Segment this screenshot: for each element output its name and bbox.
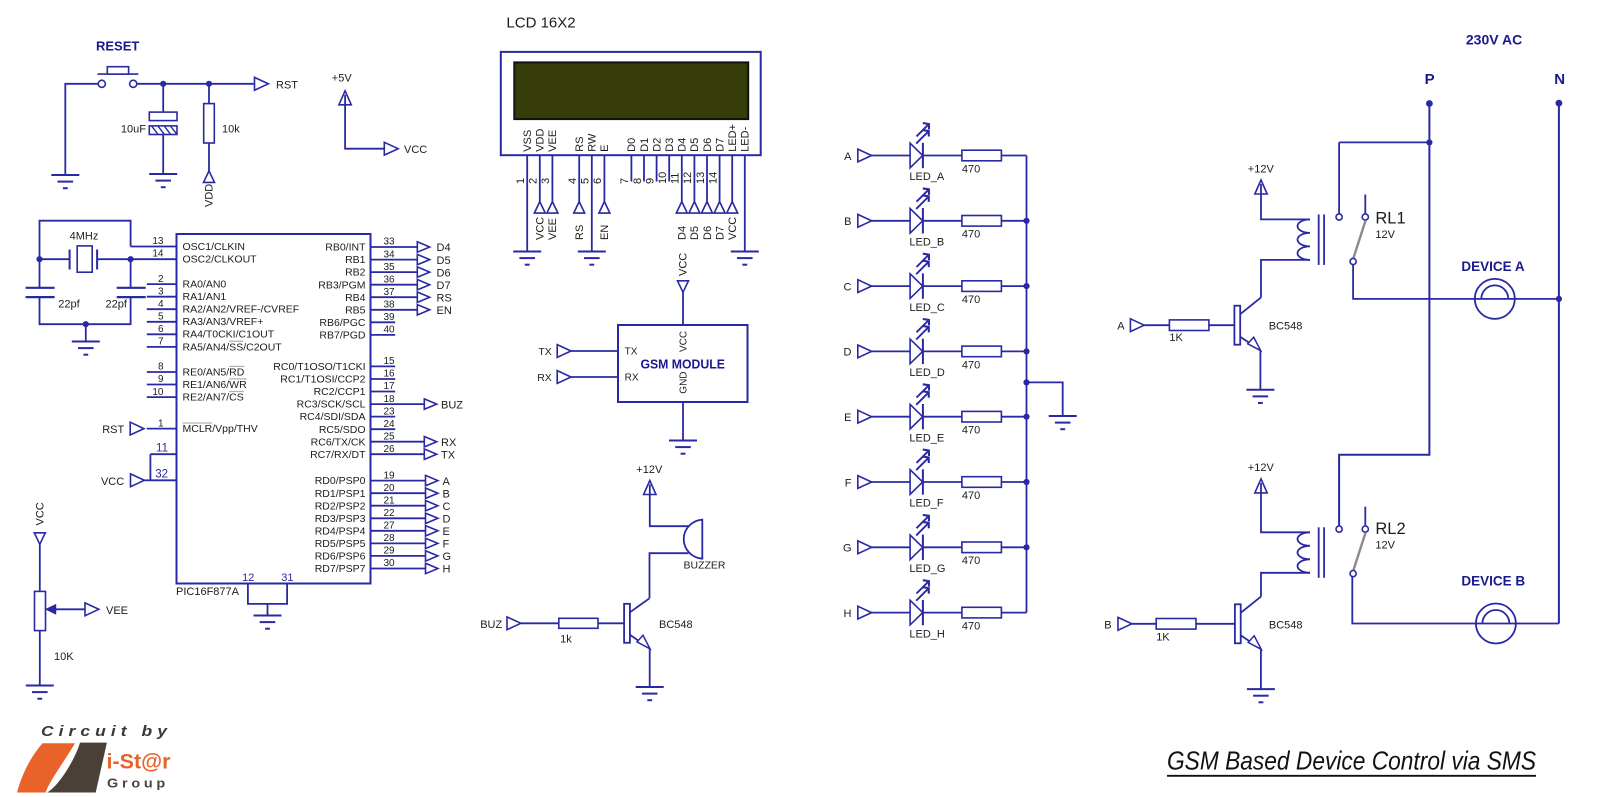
svg-text:H: H bbox=[443, 564, 451, 576]
wire R4 to Q3 base bbox=[1196, 623, 1235, 625]
wire +5V to VCC connector bbox=[345, 105, 384, 149]
label 12V (RL1) bbox=[1375, 229, 1395, 241]
label D4 rotated (LCD D4) bbox=[677, 226, 689, 240]
connector BUZ (pin 18) bbox=[424, 399, 463, 411]
IC pin 19 number bbox=[384, 470, 396, 481]
IC pin 39 number bbox=[384, 312, 396, 323]
IC pin 23 label RC4/SDI/SDA bbox=[300, 411, 366, 423]
svg-text:21: 21 bbox=[384, 495, 396, 506]
LCD pin number 14 bbox=[707, 172, 719, 184]
LCD pin D7 wire bbox=[719, 155, 721, 201]
IC pin 5 number bbox=[158, 312, 164, 323]
IC pin 35 stub bbox=[371, 271, 418, 273]
LCD pin D5 wire bbox=[693, 155, 695, 201]
relay RL2 coil bbox=[1298, 532, 1311, 573]
pushbutton SW1 actuator bar bbox=[98, 67, 139, 74]
svg-text:LED_D: LED_D bbox=[909, 367, 945, 379]
LCD pin number 11 bbox=[670, 173, 682, 184]
junction dot crystal right bbox=[128, 256, 134, 262]
wire resistor to bus (row A) bbox=[1001, 155, 1026, 157]
svg-text:BUZ: BUZ bbox=[441, 399, 463, 411]
svg-text:RC5/SDO: RC5/SDO bbox=[319, 424, 366, 436]
LED LED_A bbox=[910, 123, 929, 168]
wire VCC bracket pins 11-32 bbox=[149, 454, 151, 480]
svg-text:4: 4 bbox=[158, 299, 164, 310]
svg-text:10uF: 10uF bbox=[121, 124, 146, 136]
svg-text:VCC: VCC bbox=[34, 502, 46, 525]
label BUZZER bbox=[684, 560, 726, 572]
svg-text:9: 9 bbox=[158, 374, 164, 385]
svg-text:D1: D1 bbox=[639, 138, 651, 152]
connector D input (LED row) bbox=[844, 345, 872, 359]
svg-text:RA1/AN1: RA1/AN1 bbox=[183, 291, 227, 303]
svg-text:35: 35 bbox=[384, 262, 396, 273]
IC pin 15 stub bbox=[371, 365, 396, 367]
label LCD 16X2 bbox=[506, 15, 575, 32]
svg-text:34: 34 bbox=[384, 249, 396, 260]
transistor Q3 BC548 (RL2) emitter bbox=[1241, 635, 1262, 649]
label GSM MODULE bbox=[640, 357, 725, 372]
IC pin 2 stub bbox=[147, 283, 177, 285]
IC pin 18 label RC3/SCK/SCL bbox=[297, 399, 366, 411]
IC pin 23 number bbox=[384, 406, 396, 417]
svg-text:RE0/AN5/RD: RE0/AN5/RD bbox=[183, 366, 245, 378]
svg-text:RS: RS bbox=[437, 292, 452, 304]
LCD pin number 5 bbox=[580, 178, 592, 184]
IC pin 3 stub bbox=[147, 296, 177, 298]
svg-text:29: 29 bbox=[384, 546, 396, 557]
svg-text:RESET: RESET bbox=[96, 39, 139, 54]
connector H input (LED row) bbox=[844, 606, 872, 620]
wire Q2 emitter to ground bbox=[1259, 350, 1261, 389]
IC pin 25 number bbox=[384, 431, 396, 442]
wire P rail bbox=[1339, 104, 1429, 526]
connector VEE up (LCD VEE) bbox=[547, 202, 558, 214]
IC pin 40 label RB7/PGD bbox=[319, 330, 366, 342]
svg-text:470: 470 bbox=[962, 490, 980, 502]
svg-text:10k: 10k bbox=[222, 124, 240, 136]
power arrow +5V bbox=[339, 91, 351, 105]
label LED_C bbox=[909, 302, 945, 314]
svg-text:GND: GND bbox=[678, 371, 689, 393]
LCD pin D4 wire bbox=[681, 155, 683, 201]
LCD pin label D6 bbox=[702, 138, 714, 152]
lamp DEVICE A bbox=[1475, 279, 1515, 319]
connector B input (RL2) bbox=[1104, 617, 1132, 631]
IC pin 29 number bbox=[384, 546, 396, 557]
svg-text:PIC16F877A: PIC16F877A bbox=[176, 586, 240, 598]
svg-text:470: 470 bbox=[962, 555, 980, 567]
logo dark swoosh bbox=[47, 743, 107, 793]
ground (Q3) bbox=[1247, 689, 1275, 702]
wire F to LED_F bbox=[871, 481, 910, 483]
svg-text:VCC: VCC bbox=[678, 253, 690, 276]
IC pin 36 label RB3/PGM bbox=[318, 279, 365, 291]
node N dot bbox=[1556, 100, 1563, 107]
svg-text:33: 33 bbox=[384, 237, 396, 248]
svg-text:1K: 1K bbox=[1156, 631, 1170, 643]
svg-text:27: 27 bbox=[384, 521, 396, 532]
svg-text:32: 32 bbox=[155, 469, 168, 481]
connector F (pin 28) bbox=[426, 538, 450, 550]
logo orange swoosh bbox=[17, 743, 75, 792]
svg-text:1k: 1k bbox=[560, 634, 572, 646]
wire LED_F to resistor bbox=[923, 481, 962, 483]
junction dot bottom rail bbox=[83, 321, 89, 327]
resistor R1 10k bbox=[204, 104, 215, 143]
wire G to LED_G bbox=[871, 546, 910, 548]
wire A to R3 bbox=[1144, 324, 1170, 326]
IC pin 8 stub bbox=[147, 371, 177, 373]
wire +12V to RL2 coil bbox=[1261, 493, 1310, 532]
relay RL1 contact left bbox=[1336, 214, 1342, 220]
LCD pin number 6 bbox=[592, 178, 604, 184]
IC pin 37 number bbox=[384, 287, 396, 298]
resistor 470 (row A) bbox=[962, 150, 1002, 161]
svg-text:RL2: RL2 bbox=[1375, 520, 1405, 538]
IC pin 38 label RB5 bbox=[345, 304, 366, 316]
LCD pin D6 wire bbox=[706, 155, 708, 201]
svg-text:BUZZER: BUZZER bbox=[684, 560, 726, 572]
svg-text:470: 470 bbox=[962, 621, 980, 633]
svg-text:8: 8 bbox=[158, 362, 164, 373]
LED LED_G bbox=[910, 515, 929, 560]
svg-text:230V AC: 230V AC bbox=[1466, 32, 1522, 48]
IC pin 39 label RB6/PGC bbox=[319, 317, 366, 329]
svg-text:LED_E: LED_E bbox=[909, 432, 944, 444]
IC pin 17 number bbox=[384, 381, 396, 392]
label LED_D bbox=[909, 367, 945, 379]
wire bus to ground bbox=[1027, 382, 1063, 415]
label +5V bbox=[332, 73, 353, 85]
label 10K (pot) bbox=[54, 651, 74, 663]
resistor 470 (row D) bbox=[962, 346, 1002, 357]
connector EN up (LCD E) bbox=[599, 202, 610, 214]
svg-text:D6: D6 bbox=[702, 138, 714, 152]
IC pin 32 stub + number bbox=[150, 469, 176, 481]
svg-text:28: 28 bbox=[384, 533, 396, 544]
IC pin 28 stub bbox=[371, 542, 426, 544]
wire LED_C to resistor bbox=[923, 285, 962, 287]
svg-text:23: 23 bbox=[384, 406, 396, 417]
connector RS up (LCD RS) bbox=[574, 202, 585, 214]
IC pin 19 label RD0/PSP0 bbox=[315, 475, 366, 487]
IC pin 33 label RB0/INT bbox=[325, 242, 366, 254]
wire right 22pf top bbox=[130, 259, 132, 287]
IC pin 35 number bbox=[384, 262, 396, 273]
connector D5 up (LCD D5) bbox=[689, 202, 700, 214]
svg-text:22pf: 22pf bbox=[58, 299, 80, 311]
svg-text:RB7/PGD: RB7/PGD bbox=[319, 330, 366, 342]
svg-text:EN: EN bbox=[437, 305, 452, 317]
label 4MHz bbox=[70, 231, 99, 243]
svg-text:RB6/PGC: RB6/PGC bbox=[319, 317, 366, 329]
LED LED_B bbox=[910, 188, 929, 233]
ground (reset switch) bbox=[51, 175, 79, 188]
svg-text:E: E bbox=[844, 412, 851, 424]
LCD pin D1 stub wire bbox=[643, 155, 645, 181]
IC pin 26 stub bbox=[371, 453, 425, 455]
svg-text:RD3/PSP3: RD3/PSP3 bbox=[315, 513, 366, 525]
LCD screen bbox=[514, 62, 748, 119]
resistor 470 (row G) bbox=[962, 542, 1002, 553]
label VDD rotated bbox=[203, 184, 215, 207]
svg-text:LED_G: LED_G bbox=[909, 563, 945, 575]
ground (C1) bbox=[149, 174, 177, 187]
svg-text:TX: TX bbox=[625, 347, 638, 358]
IC pin 27 number bbox=[384, 521, 396, 532]
wire resistor to bus (row D) bbox=[1001, 350, 1026, 352]
svg-text:LED_F: LED_F bbox=[909, 498, 944, 510]
svg-text:VEE: VEE bbox=[547, 130, 559, 152]
connector D7 up (LCD D7) bbox=[714, 202, 725, 214]
IC pin 27 label RD4/PSP4 bbox=[315, 525, 366, 537]
IC pin 25 label RC6/TX/CK bbox=[311, 436, 366, 448]
relay RL1 core bbox=[1319, 214, 1324, 265]
wire resistor to bus (row G) bbox=[1001, 546, 1026, 548]
transistor Q3 BC548 (RL2) base bar bbox=[1235, 604, 1241, 643]
wire TX to GSM bbox=[571, 350, 618, 352]
wire D to LED_D bbox=[871, 350, 910, 352]
label 22pf (C3) bbox=[106, 299, 128, 311]
IC pin 20 stub bbox=[371, 492, 426, 494]
label +12V (RL2) bbox=[1248, 462, 1275, 474]
svg-text:25: 25 bbox=[384, 431, 396, 442]
svg-text:13: 13 bbox=[152, 236, 164, 247]
IC pin 22 number bbox=[384, 508, 396, 519]
svg-text:D5: D5 bbox=[689, 138, 701, 152]
LCD pin number 4 bbox=[567, 178, 579, 184]
junction dot bus row C bbox=[1023, 283, 1029, 289]
label VCC rotated (LCD LED+) bbox=[727, 217, 739, 240]
svg-text:G: G bbox=[843, 543, 852, 555]
svg-text:RC7/RX/DT: RC7/RX/DT bbox=[310, 449, 366, 461]
IC pin 3 label RA1/AN1 bbox=[183, 291, 227, 303]
label 470 (row B) bbox=[962, 229, 980, 241]
svg-text:17: 17 bbox=[384, 381, 396, 392]
resistor R3 1K bbox=[1169, 320, 1209, 331]
IC pin 34 stub bbox=[371, 259, 418, 261]
resistor 470 (row F) bbox=[962, 477, 1002, 488]
label BC548 (Q1) bbox=[659, 619, 693, 631]
svg-text:18: 18 bbox=[384, 394, 396, 405]
LCD pin label D0 bbox=[626, 138, 638, 152]
svg-text:VCC: VCC bbox=[678, 331, 689, 352]
IC pin 34 number bbox=[384, 249, 396, 260]
relay RL1 contact common bbox=[1350, 258, 1356, 264]
svg-text:VEE: VEE bbox=[547, 218, 559, 240]
wire LED_A to resistor bbox=[923, 155, 962, 157]
relay RL1 contact stub bbox=[1364, 195, 1366, 214]
svg-text:D5: D5 bbox=[689, 226, 701, 240]
svg-text:3: 3 bbox=[158, 286, 164, 297]
label 10k bbox=[222, 124, 240, 136]
IC pin 34 label RB1 bbox=[345, 254, 366, 266]
IC pin 28 number bbox=[384, 533, 396, 544]
logo text Group bbox=[107, 776, 169, 791]
wire E to LED_E bbox=[871, 416, 910, 418]
label 12V (RL2) bbox=[1375, 540, 1395, 552]
svg-text:22pf: 22pf bbox=[106, 299, 128, 311]
svg-text:DEVICE A: DEVICE A bbox=[1461, 259, 1525, 274]
svg-text:1: 1 bbox=[158, 418, 164, 429]
relay RL2 contact stub bbox=[1364, 507, 1366, 526]
label 470 (row G) bbox=[962, 555, 980, 567]
IC pin 24 stub bbox=[371, 428, 396, 430]
ground (oscillator) bbox=[72, 342, 100, 355]
transistor Q1 BC548 (buzzer) base bar bbox=[624, 604, 630, 643]
svg-text:VCC: VCC bbox=[535, 217, 547, 240]
IC pin 24 number bbox=[384, 419, 396, 430]
svg-text:RC6/TX/CK: RC6/TX/CK bbox=[311, 436, 366, 448]
IC pin 16 label RC1/T1OSI/CCP2 bbox=[280, 374, 365, 386]
svg-text:A: A bbox=[1117, 321, 1125, 333]
ground (Q2) bbox=[1246, 390, 1274, 403]
IC pin 7 stub bbox=[147, 346, 177, 348]
svg-text:D6: D6 bbox=[702, 226, 714, 240]
IC pin 16 stub bbox=[371, 378, 396, 380]
label LED_A bbox=[909, 171, 945, 183]
svg-text:LED_B: LED_B bbox=[909, 237, 944, 249]
wire R3 to Q2 base bbox=[1209, 324, 1235, 326]
svg-text:GSM MODULE: GSM MODULE bbox=[640, 357, 725, 372]
svg-text:14: 14 bbox=[707, 172, 719, 184]
IC pin 26 label RC7/RX/DT bbox=[310, 449, 366, 461]
connector B (pin 20) bbox=[426, 488, 450, 500]
pushbutton SW1 left contact bbox=[98, 80, 105, 87]
IC pin 1 label MCLR/Vpp/THV bbox=[183, 423, 258, 435]
wire GSM GND to ground bbox=[682, 402, 684, 440]
wire resistor to bus (row C) bbox=[1001, 285, 1026, 287]
connector F input (LED row) bbox=[845, 476, 872, 490]
svg-text:Circuit by: Circuit by bbox=[41, 724, 172, 740]
label LED_F bbox=[909, 498, 944, 510]
svg-text:470: 470 bbox=[962, 294, 980, 306]
LCD pin LED- wire to ground bbox=[744, 155, 746, 251]
wire RL1 contact to P rail bbox=[1339, 142, 1429, 214]
IC pin 40 stub bbox=[371, 334, 396, 336]
svg-text:C: C bbox=[443, 501, 451, 513]
svg-text:GSM Based Device Control via S: GSM Based Device Control via SMS bbox=[1167, 746, 1537, 776]
svg-text:RX: RX bbox=[537, 372, 552, 384]
IC pin 4 number bbox=[158, 299, 164, 310]
svg-text:470: 470 bbox=[962, 229, 980, 241]
wire left 22pf top bbox=[39, 259, 41, 287]
IC pin 21 label RD2/PSP2 bbox=[315, 500, 366, 512]
wire DEVICE B to N rail bbox=[1516, 623, 1559, 625]
wire C1 to ground bbox=[162, 135, 164, 175]
LCD pin D2 stub wire bbox=[656, 155, 658, 181]
wire crystal left bbox=[40, 258, 70, 260]
svg-text:LED_H: LED_H bbox=[909, 628, 945, 640]
LCD pin LED+ wire bbox=[731, 155, 733, 201]
IC pin 22 stub bbox=[371, 517, 426, 519]
svg-text:A: A bbox=[844, 151, 852, 163]
LCD pin number 9 bbox=[644, 178, 656, 184]
wire resistor to bus (row H) bbox=[1001, 612, 1026, 614]
logo text i-St@r bbox=[107, 750, 172, 774]
IC pin 39 stub bbox=[371, 321, 396, 323]
svg-text:15: 15 bbox=[384, 356, 396, 367]
transistor Q2 BC548 (RL1) emitter bbox=[1240, 337, 1261, 351]
svg-text:D7: D7 bbox=[437, 280, 451, 292]
svg-text:TX: TX bbox=[441, 449, 456, 461]
svg-text:VDD: VDD bbox=[535, 129, 547, 152]
label 10uF bbox=[121, 124, 146, 136]
svg-text:TX: TX bbox=[538, 346, 551, 358]
svg-text:BC548: BC548 bbox=[659, 619, 693, 631]
label D5 rotated (LCD D5) bbox=[689, 226, 701, 240]
svg-text:RB4: RB4 bbox=[345, 292, 366, 304]
connector VCC into pin 32 bbox=[101, 474, 150, 488]
svg-text:F: F bbox=[443, 539, 450, 551]
IC pin 29 stub bbox=[371, 555, 426, 557]
label DEVICE A bbox=[1461, 259, 1525, 274]
wire LED_D to resistor bbox=[923, 350, 962, 352]
wire +12V to buzzer bbox=[650, 495, 689, 527]
connector RX input bbox=[537, 371, 571, 384]
svg-text:36: 36 bbox=[384, 274, 396, 285]
ground (LED bus) bbox=[1049, 416, 1077, 429]
connector D6 up (LCD D6) bbox=[702, 202, 713, 214]
resistor 470 (row B) bbox=[962, 216, 1002, 227]
svg-text:OSC1/CLKIN: OSC1/CLKIN bbox=[183, 241, 245, 253]
wire RX to GSM bbox=[571, 376, 618, 378]
junction dot bus row F bbox=[1023, 479, 1029, 485]
buzzer LS1 bbox=[684, 520, 703, 559]
svg-text:38: 38 bbox=[384, 300, 396, 311]
svg-text:10: 10 bbox=[152, 387, 164, 398]
IC pin 25 stub bbox=[371, 441, 425, 443]
resistor 470 (row H) bbox=[962, 607, 1002, 618]
connector VCC up (LCD VDD) bbox=[534, 202, 545, 214]
svg-text:RX: RX bbox=[441, 437, 457, 449]
IC pin 6 number bbox=[158, 324, 164, 335]
svg-text:3: 3 bbox=[540, 178, 552, 184]
LCD pin D0 stub wire bbox=[630, 155, 632, 181]
IC pin 8 number bbox=[158, 362, 164, 373]
power arrow +12V (buzzer) bbox=[644, 481, 656, 495]
svg-text:RL1: RL1 bbox=[1375, 209, 1405, 227]
label 470 (row D) bbox=[962, 359, 980, 371]
wire LED_G to resistor bbox=[923, 546, 962, 548]
svg-text:H: H bbox=[844, 608, 852, 620]
wire VCC to GSM box bbox=[682, 292, 684, 325]
svg-text:B: B bbox=[1104, 619, 1111, 631]
connector D4 up (LCD D4) bbox=[676, 202, 687, 214]
IC pin 2 number bbox=[158, 274, 164, 285]
IC pin 19 stub bbox=[371, 480, 426, 482]
junction dot bus ground tap bbox=[1023, 379, 1029, 385]
label RL2 bbox=[1375, 520, 1405, 538]
label +12V (buzzer) bbox=[636, 464, 663, 476]
IC pin 10 number bbox=[152, 387, 164, 398]
label VCC rotated (GSM) bbox=[678, 253, 690, 276]
label N bbox=[1554, 71, 1565, 88]
svg-text:VDD: VDD bbox=[203, 184, 215, 207]
junction dot bus row G bbox=[1023, 544, 1029, 550]
svg-text:39: 39 bbox=[384, 312, 396, 323]
svg-text:13: 13 bbox=[695, 172, 707, 184]
connector D7 (pin 36) bbox=[417, 280, 450, 292]
svg-text:D7: D7 bbox=[714, 138, 726, 152]
svg-text:1K: 1K bbox=[1169, 332, 1183, 344]
ground (pot) bbox=[26, 686, 54, 699]
svg-text:12V: 12V bbox=[1375, 540, 1395, 552]
label D6 rotated (LCD D6) bbox=[702, 226, 714, 240]
label RS rotated (LCD RS) bbox=[574, 225, 586, 240]
IC pin 37 label RB4 bbox=[345, 292, 366, 304]
